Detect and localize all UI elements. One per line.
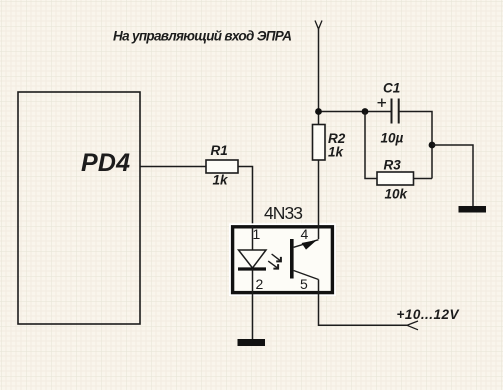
wire junction C to right ground xyxy=(432,145,473,206)
junction dot C xyxy=(429,142,436,149)
svg-text:R3: R3 xyxy=(384,158,402,173)
optocoupler U1 box white halo xyxy=(233,227,333,293)
wire pin1 into LED xyxy=(252,225,254,250)
wire PD4 to R1 xyxy=(140,166,206,168)
junction dot B xyxy=(362,108,369,115)
svg-text:На управляющий вход ЭПРА: На управляющий вход ЭПРА xyxy=(113,29,292,44)
ground (below pin 2) xyxy=(238,339,266,346)
optocoupler U1 box xyxy=(233,227,333,293)
wire node row y=111.5 xyxy=(319,111,392,113)
input arrow (open V at top) xyxy=(315,21,322,30)
light arrow 1 xyxy=(272,254,281,261)
LED cathode bar xyxy=(238,267,266,270)
light arrow 2 xyxy=(268,261,278,268)
collector line to pin 4 xyxy=(294,240,319,248)
wire loop left of R3 xyxy=(365,112,377,179)
wire R3 right side xyxy=(414,178,433,180)
svg-text:+10...12V: +10...12V xyxy=(397,307,460,322)
wire pin5 down and right to supply xyxy=(319,280,408,326)
svg-text:4: 4 xyxy=(301,226,309,242)
LED diode triangle xyxy=(239,250,267,268)
wire C1 right to vertical xyxy=(399,112,432,179)
svg-text:10k: 10k xyxy=(385,187,409,202)
resistor R2 xyxy=(313,125,326,161)
collector arrowhead xyxy=(302,240,318,250)
svg-text:5: 5 xyxy=(300,276,308,292)
wire R1 to opto pin1 xyxy=(238,167,253,227)
svg-text:R1: R1 xyxy=(211,143,228,158)
plus sign of C1 xyxy=(378,99,387,107)
wire pin4 up to R2 xyxy=(318,160,320,239)
svg-text:1k: 1k xyxy=(213,173,230,188)
supply open arrow xyxy=(407,321,418,330)
svg-text:PD4: PD4 xyxy=(81,149,130,177)
svg-text:2: 2 xyxy=(256,276,264,292)
capacitor C1 plates xyxy=(391,99,393,124)
svg-text:C1: C1 xyxy=(383,81,400,96)
wire R2 top to input arrow xyxy=(318,29,320,125)
junction dot A xyxy=(315,108,322,115)
phototransistor base bar xyxy=(290,239,294,279)
resistor R1 xyxy=(206,160,238,173)
svg-text:1k: 1k xyxy=(328,145,345,160)
wire LED cathode down to pin2 and ground xyxy=(252,269,254,339)
svg-text:10µ: 10µ xyxy=(381,131,404,146)
resistor R3 xyxy=(377,172,414,185)
svg-text:4N33: 4N33 xyxy=(264,203,303,223)
svg-text:1: 1 xyxy=(253,226,261,242)
ground (right) xyxy=(459,206,487,213)
IC PD4 box xyxy=(18,92,140,324)
emitter line to pin 5 xyxy=(294,271,319,280)
